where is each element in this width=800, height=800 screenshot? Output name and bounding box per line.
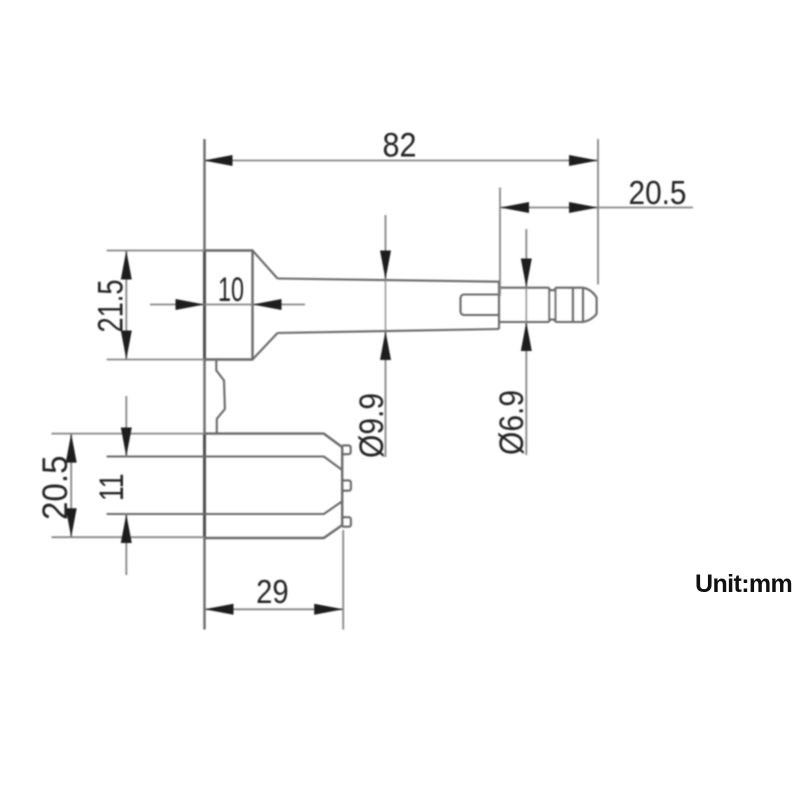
- svg-text:21.5: 21.5: [92, 280, 131, 333]
- svg-text:29: 29: [256, 573, 289, 610]
- svg-text:Ø9.9: Ø9.9: [353, 393, 391, 458]
- svg-text:11: 11: [93, 474, 131, 502]
- svg-text:10: 10: [218, 271, 244, 309]
- svg-text:Ø6.9: Ø6.9: [493, 390, 531, 455]
- svg-text:20.5: 20.5: [629, 174, 687, 211]
- svg-text:82: 82: [383, 126, 417, 164]
- svg-text:20.5: 20.5: [36, 456, 75, 521]
